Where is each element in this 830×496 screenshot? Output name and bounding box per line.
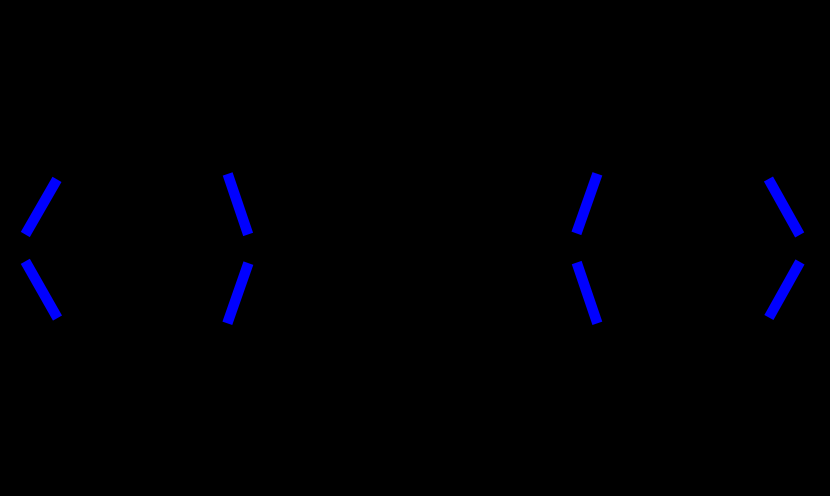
right ring: bond B6 (lower-left) [577,263,598,324]
right ring: bond B8 (lower-right) [769,262,800,318]
left ring: bond B2 (lower-left) [25,261,57,318]
left ring: bond B3 (upper-right) [228,174,249,235]
left ring: bond B1 (upper-left) [25,179,57,234]
left ring: bond B4 (lower-right) [227,263,248,323]
right ring: bond B7 (upper-right) [768,179,799,235]
right ring: bond B5 (upper-left) [576,174,597,234]
